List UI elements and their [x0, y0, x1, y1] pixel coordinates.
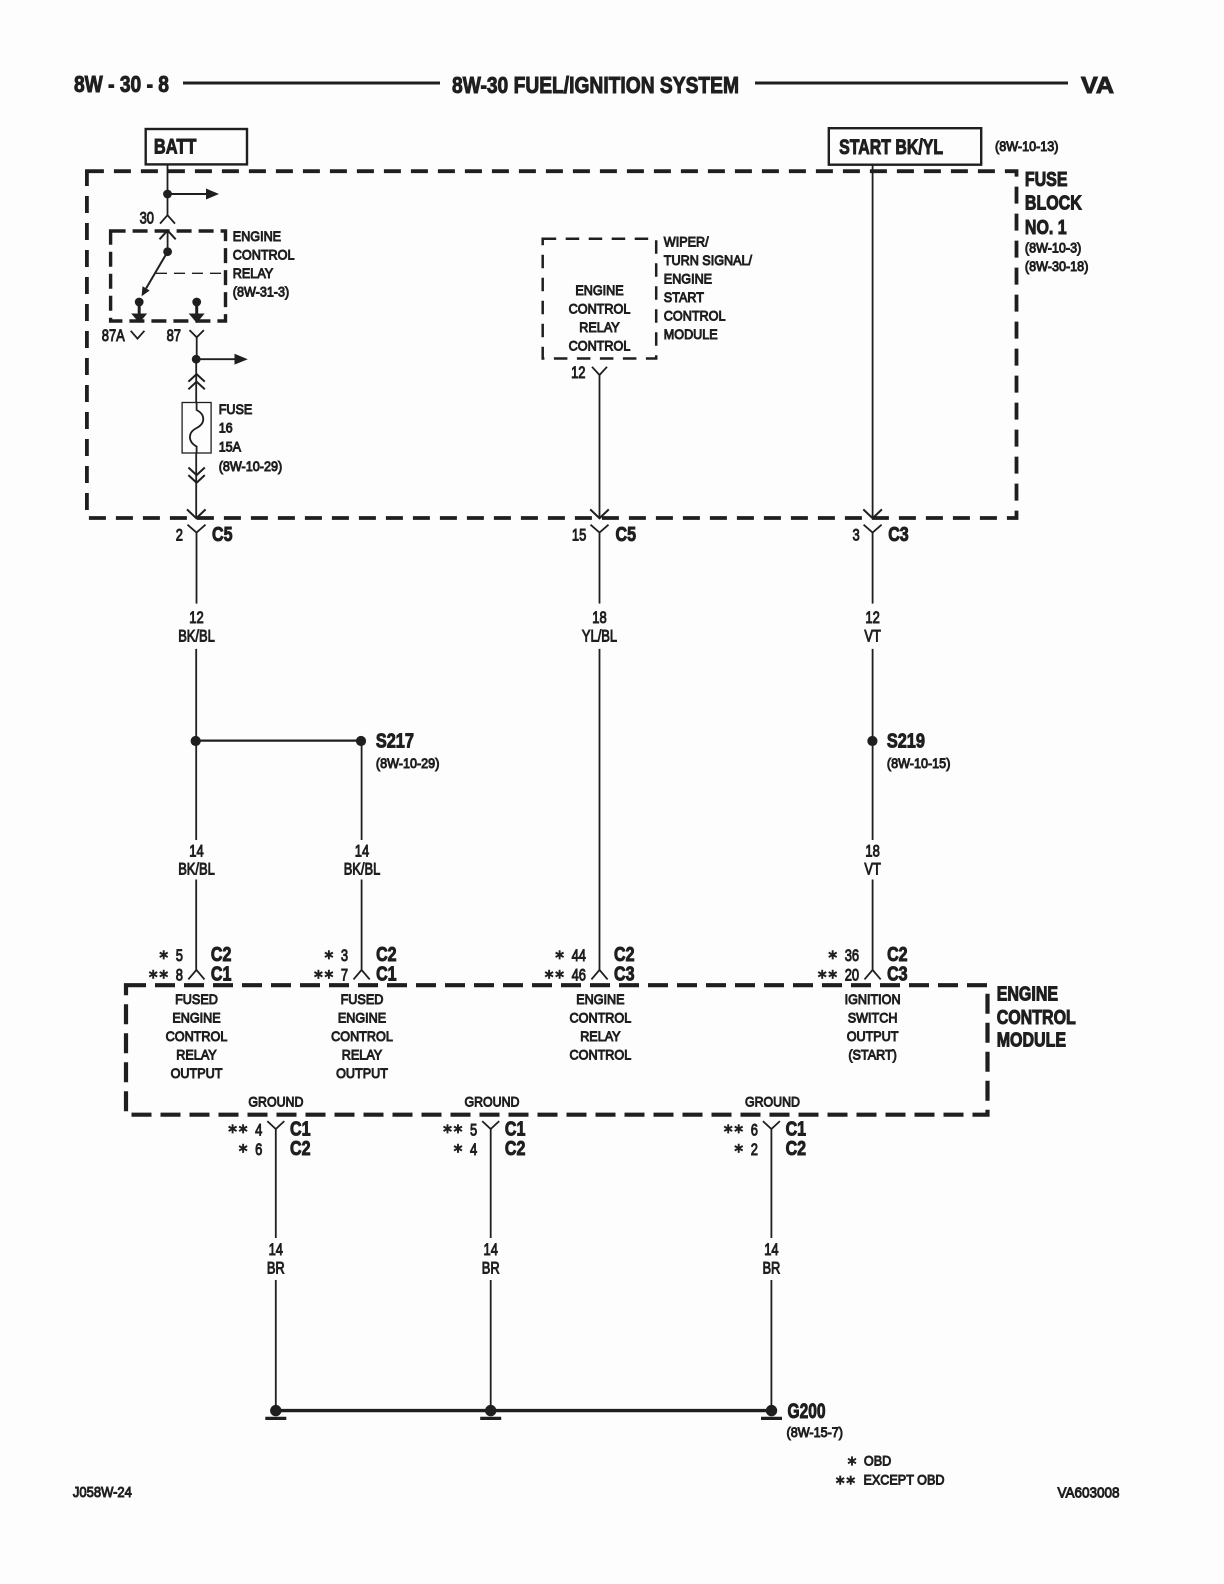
label FUSED ENGINE CONTROL RELAY OUTPUT (second): [331, 991, 393, 1081]
svg-text:44: 44: [572, 946, 586, 965]
svg-text:C3: C3: [614, 964, 635, 986]
svg-text:14: 14: [764, 1240, 778, 1259]
svg-text:START BK/YL: START BK/YL: [839, 136, 943, 159]
male pin arrow at C3 cavity 3: [863, 509, 882, 518]
svg-text:BR: BR: [762, 1259, 780, 1278]
svg-text:WIPER/: WIPER/: [664, 234, 709, 250]
svg-text:FUSED: FUSED: [341, 991, 384, 1007]
svg-text:(8W-30-18): (8W-30-18): [1025, 258, 1089, 274]
svg-text:(8W-10-29): (8W-10-29): [219, 458, 283, 474]
svg-text:C2: C2: [614, 944, 635, 966]
wire YL/BL middle run to ECM: [599, 649, 601, 970]
ECM pin 8 C1 (except OBD) left: [149, 964, 231, 986]
connector name C5 (left): [212, 524, 233, 546]
relay coil divider dashed line: [156, 272, 226, 274]
svg-text:30: 30: [140, 209, 154, 228]
fuse 16 15A element: [182, 403, 211, 454]
svg-text:CONTROL: CONTROL: [664, 308, 726, 324]
svg-text:FUSED: FUSED: [175, 991, 218, 1007]
svg-text:NO. 1: NO. 1: [1025, 217, 1067, 239]
label FUSE 16 15A (8W-10-29): [219, 401, 283, 474]
svg-text:CONTROL: CONTROL: [569, 338, 631, 354]
wire 14 BR to ground G200 (right): [770, 1280, 772, 1411]
relay movable contact arm with arrowhead: [142, 252, 168, 297]
svg-text:CONTROL: CONTROL: [233, 247, 295, 263]
svg-text:C5: C5: [212, 524, 233, 546]
relay contact 87A dot: [135, 298, 144, 307]
svg-text:VA603008: VA603008: [1058, 1485, 1120, 1502]
wire to relay terminal 30: [167, 194, 169, 215]
wire label 14 BR (left): [267, 1240, 285, 1278]
svg-text:CONTROL: CONTROL: [570, 1010, 632, 1026]
pin label 12 of module: [571, 363, 585, 382]
svg-text:GROUND: GROUND: [465, 1094, 520, 1110]
ground G200 junction dot left: [270, 1405, 281, 1416]
relay contact 87 arrow to box edge: [189, 302, 205, 323]
svg-text:4: 4: [470, 1140, 477, 1159]
svg-text:BLOCK: BLOCK: [1025, 193, 1082, 215]
wire label 12 BK/BL: [178, 608, 215, 646]
label ENGINE CONTROL RELAY (8W-31-3): [233, 228, 295, 300]
svg-text:8W-30 FUEL/IGNITION SYSTEM: 8W-30 FUEL/IGNITION SYSTEM: [452, 72, 739, 98]
ECM pin 7 C1 (except OBD) second: [314, 964, 396, 986]
svg-text:C2: C2: [786, 1138, 807, 1160]
ECM ground pin 6 C1 (except OBD) right: [724, 1119, 806, 1141]
arrow to other circuits (right) below 87: [196, 354, 248, 365]
ground stud bar left: [265, 1417, 286, 1420]
wire 14 BK/BL from S217 junction to ECM: [195, 741, 197, 970]
svg-text:OBD: OBD: [864, 1452, 891, 1468]
svg-text:CONTROL: CONTROL: [997, 1007, 1076, 1029]
svg-text:CONTROL: CONTROL: [331, 1028, 393, 1044]
svg-text:BR: BR: [482, 1259, 500, 1278]
page title center: 8W-30 FUEL/IGNITION SYSTEM: [452, 72, 739, 98]
svg-text:ENGINE: ENGINE: [338, 1010, 386, 1026]
double chevron up (wire continues marker): [188, 374, 204, 389]
ECM pin 20 C3 (except OBD) right: [818, 964, 907, 986]
wiper/turn signal/engine start control module dashed box: [543, 239, 657, 359]
svg-text:(8W-15-7): (8W-15-7): [787, 1424, 844, 1440]
footnote asterisk OBD: [848, 1452, 891, 1468]
label ENGINE CONTROL RELAY CONTROL (middle): [570, 991, 632, 1063]
svg-text:4: 4: [255, 1121, 262, 1140]
svg-text:G200: G200: [788, 1400, 826, 1423]
svg-text:C2: C2: [505, 1138, 526, 1160]
svg-text:(START): (START): [848, 1047, 897, 1063]
svg-text:C3: C3: [888, 524, 909, 546]
ECM pin 5 C2 (OBD) left: [160, 944, 232, 966]
engine control module dashed boundary: [126, 985, 988, 1114]
ground G200 junction dot middle: [485, 1405, 496, 1416]
svg-text:C2: C2: [376, 944, 397, 966]
svg-text:12: 12: [189, 608, 203, 627]
svg-text:FUSE: FUSE: [219, 401, 253, 417]
page title left: 8W - 30 - 8: [74, 71, 169, 97]
svg-text:START: START: [664, 289, 704, 305]
wire 14 BR to ground G200 (left): [275, 1280, 277, 1411]
svg-text:ENGINE: ENGINE: [576, 991, 624, 1007]
wire label 18 VT: [864, 841, 881, 878]
svg-text:C2: C2: [211, 944, 232, 966]
page title right: VA: [1081, 72, 1114, 98]
label GROUND (middle): [465, 1094, 520, 1110]
label FUSE BLOCK NO. 1: [1025, 169, 1089, 274]
svg-text:20: 20: [845, 966, 859, 985]
svg-text:BK/BL: BK/BL: [344, 860, 381, 879]
ground bus wire: [276, 1409, 772, 1412]
relay terminal 30 male pin arrow: [160, 231, 176, 252]
svg-text:GROUND: GROUND: [248, 1094, 303, 1110]
svg-text:6: 6: [255, 1140, 262, 1159]
label FUSED ENGINE CONTROL RELAY OUTPUT (left): [166, 991, 228, 1081]
connector C5 cavity 15: [572, 525, 609, 604]
svg-text:15: 15: [572, 526, 586, 545]
svg-text:C3: C3: [887, 964, 908, 986]
svg-text:RELAY: RELAY: [233, 265, 274, 281]
ECM ground pin 4 C1 (except OBD) left: [229, 1119, 311, 1141]
footnote double asterisk EXCEPT OBD: [836, 1472, 944, 1488]
svg-text:BK/BL: BK/BL: [178, 860, 215, 879]
svg-text:3: 3: [853, 526, 860, 545]
svg-text:RELAY: RELAY: [579, 319, 620, 335]
wire 14 BK/BL from S217 to ECM: [361, 741, 363, 970]
label GROUND (right): [745, 1094, 800, 1110]
junction dot on BATT feed: [163, 190, 172, 199]
wire label 12 VT: [864, 608, 881, 646]
header rule left: [183, 82, 440, 85]
svg-text:OUTPUT: OUTPUT: [171, 1065, 223, 1081]
svg-text:14: 14: [355, 841, 369, 860]
svg-text:TURN SIGNAL/: TURN SIGNAL/: [664, 252, 752, 268]
svg-text:ENGINE: ENGINE: [172, 1010, 220, 1026]
svg-text:FUSE: FUSE: [1025, 169, 1068, 191]
wire 14 BR to ground G200 (middle): [490, 1280, 492, 1411]
splice S217 dot: [356, 736, 366, 746]
wire label 18 YL/BL: [582, 608, 617, 646]
ECM ground pin 4 C2 (OBD) middle: [454, 1138, 525, 1160]
female terminal at ECM cavity (left wire): [188, 970, 204, 980]
svg-text:RELAY: RELAY: [580, 1028, 621, 1044]
ECM pin 36 C2 (OBD) right: [829, 944, 908, 966]
svg-text:3: 3: [341, 946, 348, 965]
svg-text:VA: VA: [1081, 72, 1114, 98]
svg-text:ENGINE: ENGINE: [575, 282, 623, 298]
svg-text:2: 2: [176, 526, 183, 545]
svg-text:EXCEPT OBD: EXCEPT OBD: [864, 1472, 945, 1488]
svg-text:CONTROL: CONTROL: [570, 1047, 632, 1063]
wire from 87 junction to fuse 16: [195, 359, 197, 402]
connector name C3 (right): [888, 524, 909, 546]
ECM ground pin 2 C2 (OBD) right: [735, 1138, 806, 1160]
svg-text:12: 12: [571, 363, 585, 382]
wire VT down to splice S219: [872, 649, 874, 741]
header rule right: [755, 82, 1068, 85]
wire from START BK/YL to C3: [872, 165, 874, 518]
engine control relay dashed box: [111, 231, 226, 321]
relay common contact dot: [163, 247, 172, 256]
splice S219 dot: [867, 736, 877, 746]
svg-text:ENGINE: ENGINE: [997, 983, 1058, 1005]
female terminal at ECM cavity (second wire): [354, 970, 370, 980]
svg-text:8: 8: [176, 966, 183, 985]
svg-text:2: 2: [751, 1140, 758, 1159]
svg-text:14: 14: [189, 841, 203, 860]
svg-text:OUTPUT: OUTPUT: [847, 1028, 899, 1044]
svg-text:RELAY: RELAY: [342, 1047, 383, 1063]
ground stud bar right: [761, 1417, 782, 1420]
svg-text:(8W-31-3): (8W-31-3): [233, 284, 289, 300]
connector C5 cavity 2: [176, 525, 206, 604]
wire label 14 BR (middle): [482, 1240, 500, 1278]
node START BK/YL feed box: [829, 128, 981, 165]
svg-text:YL/BL: YL/BL: [582, 627, 617, 646]
ground terminal Y left: [267, 1121, 284, 1238]
svg-text:36: 36: [845, 946, 859, 965]
svg-text:CONTROL: CONTROL: [166, 1028, 228, 1044]
svg-text:12: 12: [865, 608, 879, 627]
svg-text:SWITCH: SWITCH: [848, 1010, 898, 1026]
svg-text:14: 14: [484, 1240, 498, 1259]
svg-text:16: 16: [219, 419, 233, 435]
relay contact 87 dot: [192, 298, 201, 307]
male pin arrow at C5 cavity 2: [187, 509, 206, 518]
svg-text:ENGINE: ENGINE: [233, 228, 281, 244]
terminal 87 connector Y: [190, 330, 204, 359]
wire from fuse 16 down to connector C5: [195, 453, 197, 518]
svg-text:OUTPUT: OUTPUT: [336, 1065, 388, 1081]
svg-text:(8W-10-15): (8W-10-15): [887, 755, 951, 771]
module pin 12 connector Y: [592, 367, 607, 375]
svg-text:8W - 30 - 8: 8W - 30 - 8: [74, 71, 169, 97]
label ENGINE CONTROL RELAY CONTROL inside module: [569, 282, 631, 354]
svg-text:C5: C5: [616, 524, 637, 546]
svg-text:BATT: BATT: [154, 135, 197, 158]
svg-text:7: 7: [341, 966, 348, 985]
svg-text:MODULE: MODULE: [664, 326, 718, 342]
label GROUND (left): [248, 1094, 303, 1110]
double chevron down (wire continues marker): [188, 468, 204, 483]
svg-text:J058W-24: J058W-24: [73, 1484, 132, 1501]
svg-text:46: 46: [572, 966, 586, 985]
svg-text:C2: C2: [290, 1138, 311, 1160]
fuse block No.1 dashed boundary: [87, 171, 1017, 518]
junction dot at S217 branch: [191, 736, 201, 746]
svg-text:C2: C2: [887, 944, 908, 966]
svg-text:ENGINE: ENGINE: [664, 271, 712, 287]
ECM pin 46 C3 (except OBD) middle: [545, 964, 634, 986]
label S217 (8W-10-29): [376, 731, 440, 771]
ground stud bar middle: [480, 1417, 501, 1420]
ground terminal Y middle: [482, 1121, 499, 1238]
svg-text:BR: BR: [267, 1259, 285, 1278]
reference (8W-10-13) for START feed: [995, 138, 1059, 154]
node BATT feed box: [146, 129, 247, 164]
wire label 14 BR (right): [762, 1240, 780, 1278]
splice branch wire to S217: [196, 739, 361, 741]
svg-text:87: 87: [167, 326, 181, 345]
label WIPER/TURN SIGNAL/ENGINE START CONTROL MODULE: [664, 234, 752, 343]
wire 18 VT from S219 to ECM: [872, 741, 874, 970]
svg-text:S219: S219: [887, 731, 925, 753]
svg-text:(8W-10-29): (8W-10-29): [376, 755, 440, 771]
wire BK/BL down to splice S217: [195, 649, 197, 741]
svg-text:(8W-10-13): (8W-10-13): [995, 138, 1059, 154]
label G200 (8W-15-7): [787, 1400, 844, 1440]
connector C3 cavity 3: [853, 525, 882, 604]
svg-text:C1: C1: [211, 964, 232, 986]
svg-text:18: 18: [592, 608, 606, 627]
svg-text:6: 6: [751, 1121, 758, 1140]
terminal 30 female connector: [160, 215, 175, 223]
junction dot below 87: [192, 355, 201, 364]
footer sheet code J058W-24: [73, 1484, 132, 1501]
pin label 87: [167, 326, 181, 345]
terminal 87A female connector: [131, 331, 145, 339]
svg-text:RELAY: RELAY: [176, 1047, 217, 1063]
pin label 87A: [102, 326, 126, 345]
svg-text:IGNITION: IGNITION: [845, 991, 901, 1007]
svg-text:BK/BL: BK/BL: [178, 627, 215, 646]
svg-text:CONTROL: CONTROL: [569, 301, 631, 317]
svg-text:S217: S217: [376, 731, 414, 753]
ground G200 dot right: [766, 1405, 777, 1416]
svg-text:87A: 87A: [102, 326, 126, 345]
wire from module pin 12 to C5: [599, 375, 601, 518]
ground terminal Y right: [763, 1121, 780, 1238]
svg-text:MODULE: MODULE: [997, 1030, 1066, 1052]
wire label 14 BK/BL (left): [178, 841, 215, 878]
label S219 (8W-10-15): [887, 731, 951, 771]
arrow to other circuits (right) at BATT junction: [168, 189, 220, 200]
svg-text:5: 5: [176, 946, 183, 965]
relay contact 87A arrow to box edge: [131, 302, 147, 323]
svg-text:GROUND: GROUND: [745, 1094, 800, 1110]
svg-text:VT: VT: [864, 627, 881, 646]
label ENGINE CONTROL MODULE: [997, 983, 1076, 1051]
wire from BATT into fuse block: [167, 164, 169, 194]
svg-text:14: 14: [269, 1240, 283, 1259]
svg-text:VT: VT: [864, 860, 881, 879]
svg-text:18: 18: [865, 841, 879, 860]
label IGNITION SWITCH OUTPUT (START): [845, 991, 901, 1063]
ECM pin 3 C2 (OBD) second: [325, 944, 397, 966]
svg-text:5: 5: [470, 1121, 477, 1140]
male pin arrow at C5 cavity 15: [590, 509, 609, 518]
female terminal at ECM cavity (right wire): [865, 970, 881, 980]
ECM pin 44 C2 (OBD) middle: [556, 944, 635, 966]
svg-text:(8W-10-3): (8W-10-3): [1025, 240, 1081, 256]
ECM ground pin 5 C1 (except OBD) middle: [444, 1119, 526, 1141]
connector name C5 (middle): [616, 524, 637, 546]
svg-text:15A: 15A: [219, 438, 242, 454]
wire label 14 BK/BL (second): [344, 841, 381, 878]
ECM ground pin 6 C2 (OBD) left: [239, 1138, 310, 1160]
footer code VA603008: [1058, 1485, 1120, 1502]
pin label 30: [140, 209, 154, 228]
female terminal at ECM cavity (middle wire): [591, 970, 607, 980]
svg-text:C1: C1: [376, 964, 397, 986]
